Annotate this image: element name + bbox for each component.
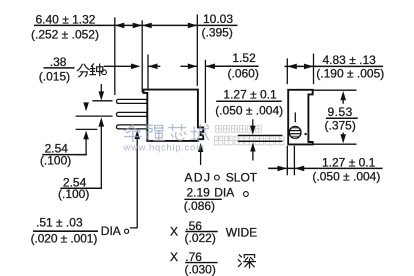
svg-text:SLOT: SLOT [226,171,258,185]
svg-text:(.100): (.100) [58,187,89,201]
svg-text:2.19: 2.19 [187,186,211,200]
svg-text:ADJ: ADJ [185,171,212,185]
svg-text:(.252 ± .052): (.252 ± .052) [31,28,99,42]
svg-text:www.hqchip.com: www.hqchip.com [123,142,205,153]
svg-text:DIA: DIA [101,224,121,238]
svg-text:9.53: 9.53 [328,105,353,119]
svg-text:1.27 ± 0.1: 1.27 ± 0.1 [322,156,376,170]
svg-text:(.395): (.395) [202,26,233,40]
svg-text:(.060): (.060) [228,66,259,80]
svg-text:DIA: DIA [214,186,234,200]
svg-text:(.190 ± .005): (.190 ± .005) [316,67,384,81]
svg-text:(.015): (.015) [39,69,70,83]
svg-text:4.83 ± .13: 4.83 ± .13 [323,53,377,67]
svg-text:(.100): (.100) [40,153,71,167]
svg-text:(.022): (.022) [185,231,216,245]
svg-text:.38: .38 [50,55,67,69]
svg-text:(.030): (.030) [185,263,216,276]
svg-text:.51 ± .03: .51 ± .03 [36,215,83,229]
svg-text:(.086): (.086) [184,199,215,213]
svg-text:(.050 ± .004): (.050 ± .004) [312,169,380,183]
svg-text:6.40 ± 1.32: 6.40 ± 1.32 [36,13,96,27]
svg-text:(.020 ± .001): (.020 ± .001) [31,231,98,245]
svg-text:1.52: 1.52 [232,51,256,65]
svg-text:X: X [170,250,178,264]
svg-text:WIDE: WIDE [226,225,257,239]
svg-text:1.27 ± 0.1: 1.27 ± 0.1 [223,88,277,102]
svg-text:10.03: 10.03 [203,12,233,26]
svg-text:(.050 ± .004): (.050 ± .004) [215,104,283,118]
svg-text:(.375): (.375) [325,118,356,132]
svg-text:X: X [170,225,178,239]
